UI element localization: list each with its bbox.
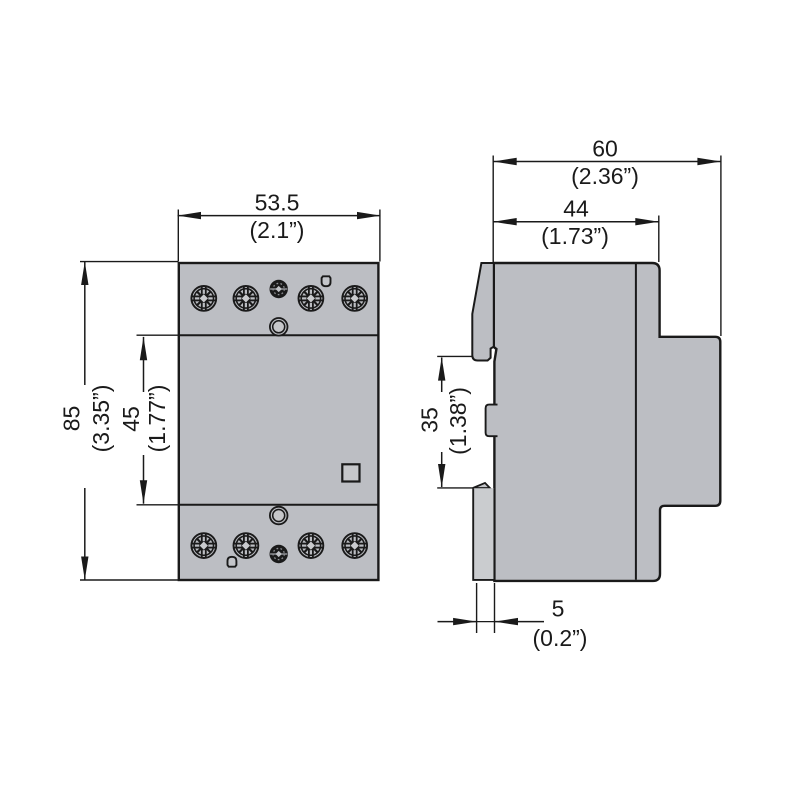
side claw wedge: [473, 483, 490, 488]
dim 85 line lower segment: [84, 488, 86, 580]
svg-text:5: 5: [552, 596, 565, 622]
dim 45 arrow top: [140, 337, 147, 360]
front view body: [179, 263, 379, 580]
dim 45 extension line top: [137, 334, 179, 336]
dim 45 arrow bottom: [140, 480, 147, 503]
svg-text:44: 44: [563, 196, 589, 222]
dim 45 line lower segment: [143, 455, 145, 504]
dim 53.5 extension line left: [177, 210, 179, 262]
dim 35 line lower segment: [441, 452, 443, 487]
svg-text:(0.2”): (0.2”): [533, 625, 588, 651]
svg-text:(2.36”): (2.36”): [571, 163, 639, 189]
front divider lower: [179, 504, 379, 506]
dim 85 extension line bottom: [80, 579, 178, 581]
side DIN tab: [486, 405, 498, 437]
dim 85 extension line top: [80, 261, 178, 263]
dim 5 arrow left: [453, 618, 477, 625]
svg-text:53.5: 53.5: [255, 190, 300, 216]
middle indicator square: [342, 464, 359, 481]
top washer ring: [270, 318, 288, 336]
bottom terminal screw 4: [342, 532, 368, 558]
svg-text:(3.35”): (3.35”): [88, 385, 114, 453]
bottom terminal screw 2: [233, 532, 259, 558]
dim 53.5 arrow right: [357, 212, 381, 219]
dim 5 extension line right: [494, 583, 496, 633]
dim 35 arrow top: [438, 357, 445, 380]
dim 5 arrow right: [495, 618, 519, 625]
dim 53.5 extension line right: [379, 210, 381, 262]
top terminal screw 3: [298, 285, 324, 311]
dim 35 extension line bottom: [437, 487, 473, 489]
bottom washer ring: [270, 507, 288, 525]
bottom terminal screw 3: [298, 532, 324, 558]
dim 45 line upper segment: [143, 337, 145, 392]
dim 5 extension line left: [476, 583, 478, 633]
dim 44 extension line right: [658, 216, 660, 263]
side top-left flange: [472, 263, 494, 361]
dim 85 arrow top: [81, 262, 88, 285]
dim 85 arrow bottom: [81, 557, 88, 581]
svg-text:45: 45: [118, 406, 144, 432]
dim 60 extension line left: [492, 156, 494, 263]
top terminal screw 4: [342, 285, 368, 311]
side DIN clip (white): [473, 488, 494, 580]
side interior line: [635, 264, 637, 580]
svg-text:(1.77”): (1.77”): [144, 385, 170, 453]
bottom sealable tab icon: [228, 557, 237, 567]
side body outline: [494, 263, 721, 581]
dim 5 line connector: [477, 621, 495, 623]
dim 35 arrow bottom: [438, 464, 445, 488]
dim 44 arrow right: [635, 218, 659, 225]
dim 53.5 arrow left: [178, 212, 202, 219]
svg-text:35: 35: [417, 407, 443, 433]
dim 60 line: [493, 161, 721, 163]
top terminal screw 2: [233, 285, 259, 311]
dim 5 line right tail: [495, 621, 545, 623]
dim 53.5 line: [178, 215, 381, 217]
dim 45 extension line bottom: [137, 504, 179, 506]
front divider upper: [179, 334, 379, 336]
dim 5 line left tail: [438, 621, 477, 623]
dim 60 arrow left: [493, 158, 517, 165]
dim 60 extension line right: [720, 156, 722, 337]
bottom small coil screw: [270, 545, 288, 563]
dim 44 arrow left: [493, 218, 517, 225]
dim 85 line upper segment: [84, 262, 86, 385]
svg-text:60: 60: [592, 136, 618, 162]
svg-text:85: 85: [59, 406, 85, 432]
dim 35 extension line top: [437, 355, 472, 357]
top small coil screw: [270, 280, 288, 298]
top terminal screw 1: [191, 285, 217, 311]
svg-text:(2.1”): (2.1”): [250, 217, 305, 243]
dim 60 arrow right: [697, 158, 721, 165]
dim 35 line upper segment: [441, 358, 443, 393]
top sealable tab icon: [322, 276, 331, 286]
svg-text:(1.73”): (1.73”): [541, 223, 609, 249]
bottom terminal screw 1: [191, 532, 217, 558]
dim 44 line: [493, 221, 659, 223]
svg-text:(1.38”): (1.38”): [445, 387, 471, 455]
